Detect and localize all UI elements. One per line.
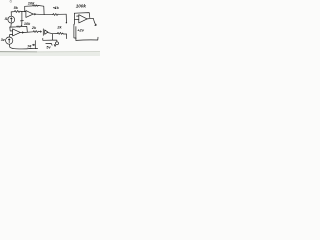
wire U3 output [24,31,34,34]
wire U2 upper input stub [77,15,79,17]
value label 1k [55,6,60,10]
wire V1 bottom lead to bottom rail [9,44,35,49]
net label 74 with arrow [27,44,32,48]
svg-text:+2v: +2v [77,27,85,32]
wire V1 top lead [9,35,11,37]
value label 10k (feedback of U1) [28,1,35,6]
wire branch down from node [52,34,54,40]
terminal node [56,42,59,45]
decorative small square top-left [10,1,12,3]
wire U2 output with arrow down [87,18,96,25]
op-amp U3 [13,29,21,36]
resistor R2 10k (U1 feedback, top rail) [25,5,44,15]
svg-text:2k: 2k [56,26,62,30]
svg-text:10k: 10k [24,22,31,26]
svg-text:100k: 100k [76,4,87,9]
svg-text:I1: I1 [5,17,8,21]
resistor R4 100k (U2 feedback rail) [74,13,89,18]
wire +2V bottom rail [76,37,98,40]
wire I1 bottom lead [10,23,13,27]
resistor R5 10k (U3 feedback, top rail) [10,26,28,32]
net label 5v with pointer [46,43,52,45]
wire U1 output [36,13,53,16]
resistor R6 2k [33,31,41,33]
wire U3 input from feedback [10,27,13,31]
wire U3 lower input stub [11,34,13,36]
value label 2k (R7) [56,26,62,30]
resistor R1 5k (input) [11,11,26,13]
svg-text:10k: 10k [28,1,35,6]
value label 5k (input resistor) [14,6,19,10]
diode D1 [42,29,44,36]
current source I1 [8,16,15,23]
op-amp U2 [79,15,87,23]
voltage source V1 3V [6,37,13,44]
wire D1 output [48,33,58,34]
wire down to +2V rail [74,24,76,38]
wire I1 top lead [10,12,12,16]
svg-text:2k: 2k [31,26,37,30]
value label 100k (U2 feedback) [76,4,87,9]
value label 10k (U3 feedback) [24,22,31,26]
value label 2k (R6) [31,26,37,30]
wire U2 inverting input from feedback [73,13,75,24]
wire node branch with capacitor C1 [21,12,23,21]
wire vertical bar node [35,41,37,49]
wire corner down [66,34,68,39]
wire box bottom rail [43,38,57,41]
resistor R3 1k [53,14,66,16]
wire branch down to node [65,14,67,22]
table edge below paper [0,52,100,56]
op-amp U1 [26,11,33,18]
resistor R7 2k [57,32,66,34]
net label +2V [77,27,85,32]
